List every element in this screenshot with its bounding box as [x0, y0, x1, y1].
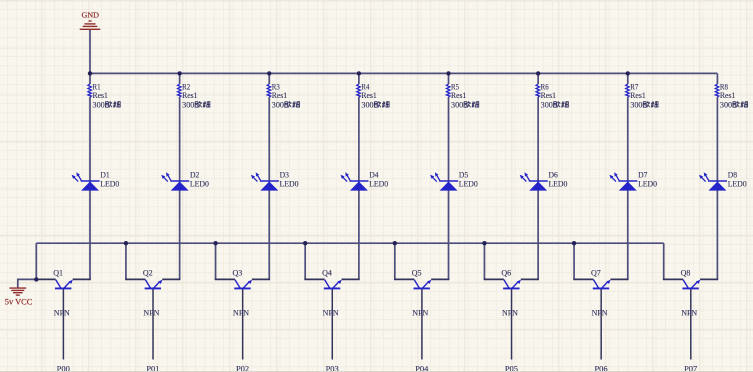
svg-text:P07: P07 [684, 364, 697, 372]
svg-text:Q1: Q1 [53, 269, 63, 278]
svg-text:Res1: Res1 [451, 91, 466, 100]
svg-text:LED0: LED0 [190, 179, 209, 188]
svg-text:Res1: Res1 [630, 91, 645, 100]
svg-text:P02: P02 [236, 364, 249, 372]
svg-text:Res1: Res1 [720, 91, 735, 100]
svg-text:300: 300 [182, 101, 194, 110]
svg-text:Res1: Res1 [361, 91, 376, 100]
svg-text:300: 300 [361, 101, 373, 110]
svg-text:Q3: Q3 [232, 269, 242, 278]
svg-text:P01: P01 [146, 364, 159, 372]
svg-text:Q5: Q5 [412, 269, 422, 278]
svg-text:GND: GND [82, 11, 100, 20]
svg-text:300: 300 [541, 101, 553, 110]
svg-text:D3: D3 [280, 170, 289, 179]
svg-text:D2: D2 [190, 170, 199, 179]
svg-text:D1: D1 [100, 170, 109, 179]
svg-text:NPN: NPN [143, 308, 159, 317]
svg-text:LED0: LED0 [459, 179, 478, 188]
svg-text:D8: D8 [728, 170, 737, 179]
svg-text:LED0: LED0 [728, 179, 747, 188]
svg-text:P05: P05 [505, 364, 518, 372]
svg-text:Q8: Q8 [681, 269, 691, 278]
svg-text:Res1: Res1 [182, 91, 197, 100]
svg-text:NPN: NPN [412, 308, 428, 317]
svg-text:Q6: Q6 [501, 269, 511, 278]
svg-text:300: 300 [272, 101, 284, 110]
svg-text:300: 300 [451, 101, 463, 110]
svg-text:P00: P00 [57, 364, 70, 372]
svg-text:Q4: Q4 [322, 269, 333, 278]
svg-text:NPN: NPN [502, 308, 518, 317]
svg-text:LED0: LED0 [548, 179, 567, 188]
svg-text:300: 300 [630, 101, 642, 110]
svg-text:300: 300 [720, 101, 732, 110]
svg-text:NPN: NPN [233, 308, 249, 317]
svg-text:Res1: Res1 [93, 91, 108, 100]
svg-text:P03: P03 [326, 364, 339, 372]
svg-text:LED0: LED0 [100, 179, 119, 188]
svg-text:Q7: Q7 [591, 269, 601, 278]
svg-text:D6: D6 [549, 170, 558, 179]
svg-text:Res1: Res1 [272, 91, 287, 100]
svg-text:Res1: Res1 [541, 91, 556, 100]
svg-text:NPN: NPN [323, 308, 339, 317]
svg-text:300: 300 [93, 101, 105, 110]
svg-text:D4: D4 [369, 170, 379, 179]
svg-text:LED0: LED0 [280, 179, 299, 188]
svg-text:5v VCC: 5v VCC [5, 298, 33, 307]
svg-text:D5: D5 [459, 170, 468, 179]
svg-text:NPN: NPN [54, 308, 70, 317]
svg-text:NPN: NPN [681, 308, 697, 317]
svg-text:LED0: LED0 [638, 179, 657, 188]
svg-text:LED0: LED0 [369, 179, 388, 188]
svg-text:P04: P04 [415, 364, 429, 372]
svg-text:P06: P06 [594, 364, 607, 372]
svg-text:D7: D7 [638, 170, 647, 179]
svg-text:Q2: Q2 [143, 269, 153, 278]
svg-text:NPN: NPN [592, 308, 608, 317]
